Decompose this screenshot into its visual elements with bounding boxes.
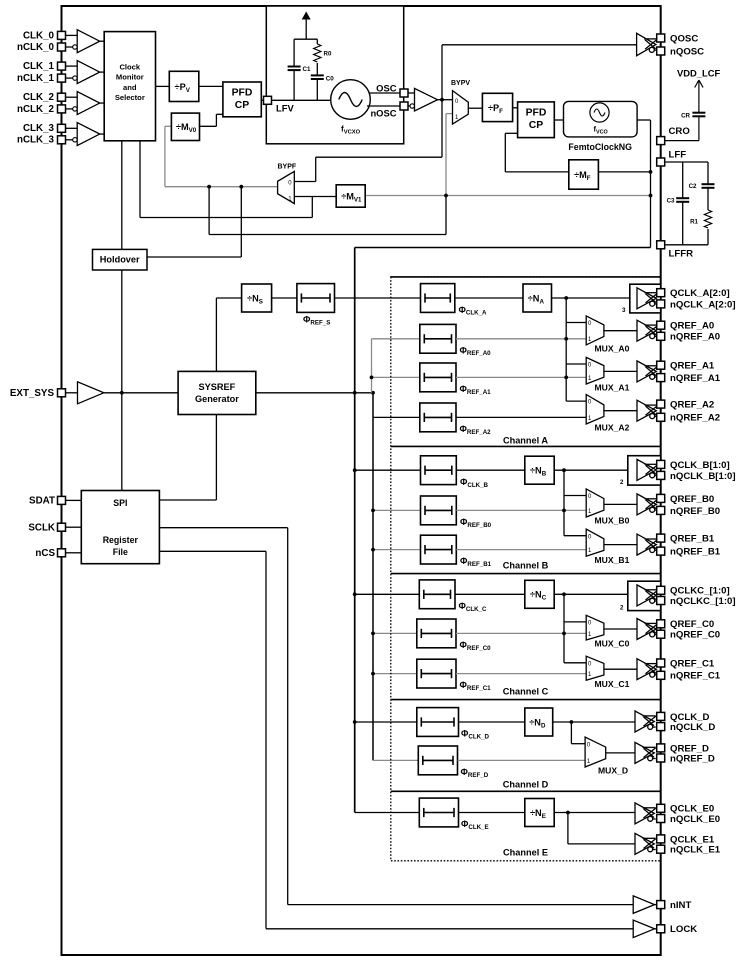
wire to REF_A2: [373, 416, 420, 418]
svg-text:Register: Register: [103, 535, 139, 545]
pin nQREF_C0: [657, 630, 665, 638]
wire OSC: [369, 92, 401, 94]
svg-text:MUX_A2: MUX_A2: [595, 423, 630, 433]
pin nCLK_0: [58, 43, 66, 51]
svg-text:CP: CP: [235, 100, 250, 111]
svg-text:nQCLK_D: nQCLK_D: [670, 722, 715, 733]
divider PV: [169, 71, 199, 101]
wire receiver 3 out: [100, 133, 105, 135]
wire CLK_D to ND: [459, 721, 525, 723]
junction holdover tap: [239, 185, 243, 189]
wire NC to QCLKC driver: [554, 593, 628, 595]
crossing mark C0: [562, 632, 566, 636]
junction channel E clock: [566, 811, 570, 815]
svg-text:nQREF_B1: nQREF_B1: [670, 547, 721, 558]
delay REF_B1: [421, 535, 457, 564]
svg-text:CP: CP: [529, 120, 544, 131]
svg-text:SYSREF: SYSREF: [199, 382, 236, 392]
wire SCLK stub: [66, 526, 82, 528]
pin nQREF_A1: [657, 374, 665, 382]
svg-text:nQREF_A1: nQREF_A1: [670, 373, 721, 384]
wire VCO to CLK_B: [355, 469, 421, 471]
wire mux A2 out: [604, 410, 637, 412]
junction channel B clock: [562, 468, 566, 472]
wire SPI LOCK out: [159, 550, 266, 552]
junction channel A clock: [564, 296, 568, 300]
wire to REF_C0: [373, 632, 417, 634]
wire riser to crossover: [445, 196, 447, 235]
svg-text:nQREF_A0: nQREF_A0: [670, 332, 720, 343]
svg-text:nOSC: nOSC: [370, 108, 396, 119]
driver QCLK_A: [637, 288, 658, 309]
divider MV1: [336, 185, 365, 207]
crossing mark A1: [564, 376, 568, 380]
junction REF_C0 tap: [371, 632, 375, 636]
svg-text:MUX_D: MUX_D: [598, 766, 628, 776]
block FemtoClockNG: [564, 101, 638, 136]
wire SPI to SYSREF: [159, 499, 216, 501]
svg-text:nQCLK_A[2:0]: nQCLK_A[2:0]: [670, 299, 736, 310]
svg-text:2: 2: [620, 605, 624, 612]
delay CLK_B: [421, 456, 457, 485]
pin nQREF_B1: [657, 547, 665, 555]
channels top edge: [391, 276, 661, 278]
wire FemtoClock out: [637, 119, 650, 121]
wire BYPF out riser: [164, 126, 166, 186]
wire CLK_1 stub: [66, 65, 78, 67]
pin LFV: [264, 96, 272, 104]
delay REF_A1: [420, 363, 456, 392]
wire OSC pin to receiver: [408, 92, 415, 94]
VCXO external network box: [266, 6, 403, 144]
divider NS: [242, 284, 272, 312]
junction channel B: [353, 468, 357, 472]
svg-text:C0: C0: [326, 76, 334, 83]
wire receiver 1 out: [100, 71, 105, 73]
divider Channel B/C: [391, 573, 661, 575]
junction channel C: [353, 592, 357, 596]
driver box QCLK_B: [628, 456, 661, 485]
svg-text:nQREF_D: nQREF_D: [670, 753, 715, 764]
driver QOSC: [637, 33, 658, 55]
capacitor C1: [288, 67, 301, 71]
pin QREF_D: [657, 744, 665, 752]
mux BYPF: [278, 171, 295, 203]
svg-text:nINT: nINT: [670, 900, 691, 911]
divider NC: [525, 580, 554, 608]
svg-text:nCS: nCS: [35, 548, 55, 559]
delay CLK_A: [421, 284, 455, 313]
driver QCLK_D: [635, 711, 656, 732]
svg-text:MUX_B0: MUX_B0: [595, 516, 630, 526]
svg-text:nCLK_0: nCLK_0: [17, 42, 55, 53]
wire LFF: [666, 161, 709, 163]
wire riser BYPF in0: [315, 157, 317, 181]
svg-text:R1: R1: [690, 219, 698, 226]
mux MUX_C0: [586, 615, 604, 640]
divider ND: [525, 708, 553, 736]
svg-text:Generator: Generator: [195, 394, 239, 404]
wire VCO to CLK_C: [355, 593, 420, 595]
svg-text:3: 3: [622, 307, 626, 314]
wire feedback into PFD2: [505, 132, 517, 134]
pin CRO: [657, 137, 665, 145]
capacitor CR: [692, 113, 705, 117]
svg-text:File: File: [113, 547, 128, 557]
wire VCO down: [650, 120, 652, 248]
wire CM to Holdover: [121, 141, 123, 250]
resistor R1: [704, 210, 711, 228]
wire channel A mux feed vertical: [565, 298, 567, 401]
pin nQCLK_A[2:0]: [657, 300, 665, 308]
svg-text:Monitor: Monitor: [116, 73, 144, 82]
pin nQREF_D: [657, 754, 665, 762]
wire channel D mux feed vertical: [570, 722, 572, 744]
wire REF_C1 to mux: [456, 673, 586, 675]
pin nINT: [657, 901, 665, 909]
wire REF_A2 to mux: [456, 416, 586, 418]
junction MV1 tap: [649, 194, 653, 198]
junction SYSREF VCO crossing: [353, 391, 357, 395]
wire CLK_2 stub: [66, 96, 78, 98]
pin nQCLK_B[1:0]: [657, 471, 665, 479]
delay REF_S: [297, 284, 335, 313]
svg-text:LFFR: LFFR: [669, 249, 694, 260]
pin SCLK: [58, 523, 66, 531]
wire to REF_B1: [373, 549, 421, 551]
junction SYSREF dist: [371, 391, 375, 395]
pin CLK_3: [58, 124, 66, 132]
chip boundary: [62, 6, 661, 955]
wire BYPV in1 riser: [445, 114, 447, 196]
driver QCLK_E1: [635, 833, 656, 854]
svg-text:Channel E: Channel E: [503, 847, 548, 857]
wire EXT_SYS to SYSREF: [104, 392, 178, 394]
pin CLK_0: [58, 31, 66, 39]
driver box QCLKC: [628, 581, 661, 610]
junction REF_C1 tap: [371, 672, 375, 676]
wire nINT vertical: [287, 528, 289, 905]
driver QREF_B0: [637, 494, 658, 515]
svg-text:nQOSC: nQOSC: [670, 46, 704, 57]
pin QREF_A2: [657, 400, 665, 408]
block PFD CP 1: [223, 82, 261, 117]
pin QCLK_E0: [657, 804, 665, 812]
pin LFF: [657, 158, 665, 166]
wire REF_B0 to mux: [456, 509, 586, 511]
wire CLK_E to NE: [459, 812, 525, 814]
svg-text:Selector: Selector: [115, 93, 145, 102]
wire receiver out to BYPV in0: [438, 99, 453, 101]
svg-text:OSC: OSC: [376, 83, 397, 94]
wire mux B0 in0: [564, 495, 586, 497]
wire riser crossover left: [208, 187, 210, 235]
channels outer dashed box: [391, 277, 661, 861]
mux BYPV: [453, 91, 469, 125]
svg-text:nQREF_C0: nQREF_C0: [670, 630, 720, 641]
wire LFFR: [666, 244, 709, 246]
svg-text:SDAT: SDAT: [29, 496, 55, 507]
svg-text:MUX_B1: MUX_B1: [595, 555, 630, 565]
wire nCLK_1 stub: [66, 77, 73, 79]
pin CLK_1: [58, 62, 66, 70]
divider Channel D/E: [391, 790, 661, 792]
wire CLK_C to NC: [455, 593, 525, 595]
driver QREF_C0: [637, 619, 658, 640]
svg-text:CRO: CRO: [669, 126, 691, 137]
wire CLK_B to NB: [456, 469, 525, 471]
svg-text:QREF_C0: QREF_C0: [670, 619, 714, 630]
svg-text:SCLK: SCLK: [28, 522, 55, 533]
svg-text:VDD_LCF: VDD_LCF: [677, 68, 721, 79]
svg-text:Channel B: Channel B: [503, 561, 549, 571]
divider MF: [569, 160, 599, 189]
buffer LOCK: [633, 920, 654, 938]
wire VCO to CLK_E: [355, 812, 420, 814]
svg-text:C2: C2: [689, 183, 697, 190]
svg-text:nQCLK_B[1:0]: nQCLK_B[1:0]: [670, 471, 736, 482]
wire into MV0: [165, 125, 172, 127]
junction channel D: [353, 720, 357, 724]
wire MV0 riser: [215, 114, 217, 126]
wire Holdover riser: [240, 187, 242, 257]
pin CLK_2: [58, 93, 66, 101]
svg-text:nCLK_1: nCLK_1: [17, 73, 55, 84]
power arrow VDD_LCF: [695, 80, 703, 141]
driver QREF_A1: [637, 361, 658, 382]
svg-text:nQCLKC_[1:0]: nQCLKC_[1:0]: [670, 596, 736, 607]
svg-text:Clock: Clock: [119, 62, 140, 71]
svg-text:QCLK_A[2:0]: QCLK_A[2:0]: [670, 288, 730, 299]
wire nCS stub: [66, 552, 82, 554]
wire mux C0 out: [604, 628, 637, 630]
delay CLK_E: [419, 798, 458, 827]
svg-text:nCLK_2: nCLK_2: [17, 104, 55, 115]
driver QREF_D: [635, 742, 656, 763]
block PFD CP 2: [518, 102, 555, 138]
svg-text:nQREF_C1: nQREF_C1: [670, 671, 721, 682]
junction OSC node: [440, 98, 444, 102]
wire LOCK horizontal: [266, 928, 633, 930]
wire channel B mux feed vertical: [563, 470, 565, 536]
wire feedback to MF: [505, 171, 569, 173]
wire R0 C0 branch: [316, 39, 318, 100]
svg-text:Channel C: Channel C: [503, 687, 549, 697]
svg-text:Channel A: Channel A: [503, 436, 548, 446]
wire to REF_B0: [373, 509, 421, 511]
svg-text:PFD: PFD: [232, 88, 253, 99]
wire C1 branch: [293, 39, 295, 100]
wire MV0 out: [200, 125, 217, 127]
driver QCLK_B: [637, 459, 658, 480]
wire LFV to VCXO: [272, 99, 331, 101]
mux MUX_A2: [586, 395, 604, 425]
wire RC top: [294, 38, 317, 40]
wire CM to BYPF area: [140, 217, 312, 219]
pin nCLK_2: [58, 105, 66, 113]
svg-text:QREF_B1: QREF_B1: [670, 534, 715, 545]
svg-text:QREF_A0: QREF_A0: [670, 321, 714, 332]
wire OSC clock vertical: [441, 45, 443, 157]
svg-text:QREF_C1: QREF_C1: [670, 658, 715, 669]
wire PF to PFD2: [513, 107, 518, 109]
svg-text:EXT_SYS: EXT_SYS: [10, 388, 55, 399]
wire mux C1 in0: [564, 662, 586, 664]
delay CLK_C: [419, 580, 455, 609]
wire BYPF in1 to MV1: [294, 196, 336, 198]
block SPI Register File: [81, 491, 159, 564]
divider PF: [482, 93, 512, 121]
wire Holdover out: [147, 256, 241, 258]
delay REF_A2: [420, 403, 456, 432]
wire mux C1 out: [604, 668, 637, 670]
wire PV to PFD1: [199, 85, 223, 87]
junction REF_A1 tap: [370, 376, 374, 380]
junction MF tap: [649, 170, 653, 174]
pin nQREF_A0: [657, 332, 665, 340]
wire SYSREF bottom riser: [215, 415, 217, 501]
svg-text:nQCLK_E0: nQCLK_E0: [670, 814, 720, 825]
wire channel E vertical: [567, 813, 569, 844]
pin QREF_A0: [657, 321, 665, 329]
wire mux A0 in0: [566, 322, 586, 324]
pin nQCLK_D: [657, 723, 665, 731]
wire CLK_0 stub: [66, 34, 78, 36]
crossing mark A0: [564, 337, 568, 341]
wire CM down: [139, 141, 141, 218]
wire VCO to CLK_D: [355, 721, 417, 723]
delay REF_C0: [417, 619, 456, 648]
wire VCO return: [355, 247, 651, 249]
wire ND to QCLK_D driver: [553, 721, 635, 723]
wire Holdover to SPI: [121, 270, 123, 491]
pin QREF_C1: [657, 659, 665, 667]
wire power stem: [305, 17, 307, 40]
svg-text:FemtoClockNG: FemtoClockNG: [568, 142, 632, 152]
wire mux B1 out: [604, 544, 637, 546]
svg-text:CR: CR: [681, 113, 690, 120]
svg-text:MUX_A1: MUX_A1: [595, 383, 630, 393]
divider Channel C/D: [391, 699, 661, 701]
mux MUX_A1: [586, 357, 604, 384]
wire C2 R1 branch: [707, 162, 709, 245]
wire BYPF output: [165, 186, 278, 188]
wire receiver 0 out: [100, 40, 105, 42]
driver QREF_A0: [637, 320, 658, 341]
svg-text:QREF_A1: QREF_A1: [670, 361, 715, 372]
svg-text:SPI: SPI: [113, 498, 127, 508]
delay REF_C1: [417, 659, 456, 688]
wire CLK_A to NA: [455, 297, 523, 299]
wire NE to QCLK_E0 driver: [554, 812, 635, 814]
pin LFFR: [657, 241, 665, 249]
delay CLK_D: [417, 708, 459, 737]
pin OSC: [400, 89, 408, 97]
wire REF_A0 to mux: [456, 338, 586, 340]
wire mux D out: [606, 752, 635, 754]
buffer EXT_SYS: [78, 382, 104, 404]
capacitor C0: [311, 75, 324, 79]
svg-text:nCLK_3: nCLK_3: [17, 135, 55, 146]
junction EXT_SYS holdover line: [120, 391, 124, 395]
svg-text:MUX_C0: MUX_C0: [595, 639, 630, 649]
svg-text:C3: C3: [667, 198, 675, 205]
driver QCLKC: [637, 585, 658, 606]
wire nINT horizontal: [288, 904, 634, 906]
junction REF_B1 tap: [371, 548, 375, 552]
svg-text:QOSC: QOSC: [670, 33, 698, 44]
receiver CLK_3: [77, 123, 100, 146]
pin nCLK_3: [58, 136, 66, 144]
wire REF_B1 to mux: [456, 549, 586, 551]
wire feedback riser: [504, 133, 506, 172]
wire nOSC pin to receiver: [408, 105, 411, 107]
wire receiver 2 out: [100, 102, 105, 104]
wire to REF_C1: [373, 673, 417, 675]
wire REF_D to mux: [458, 759, 586, 761]
wire REF_C0 to mux: [456, 632, 586, 634]
resistor R0: [314, 44, 321, 62]
wire NA to QCLK_A driver: [552, 297, 630, 299]
oscillator fVCXO: [331, 80, 371, 120]
wire mux A1 out: [604, 370, 637, 372]
wire into Ns: [216, 297, 241, 299]
svg-text:nQREF_A2: nQREF_A2: [670, 413, 720, 424]
pin LOCK: [657, 925, 665, 933]
driver QREF_A2: [637, 400, 658, 421]
wire to QCLK_E1 driver: [568, 843, 635, 845]
wire SDAT stub: [66, 499, 82, 501]
wire VCO distribution vertical: [354, 248, 356, 813]
driver box QCLK_A: [630, 284, 661, 313]
wire nCLK_0 stub: [66, 46, 73, 48]
wire into BYPF in0: [294, 181, 315, 183]
svg-text:nQREF_B0: nQREF_B0: [670, 506, 720, 517]
junction BYPV tap: [444, 194, 448, 198]
wire mux B1 in0: [564, 535, 586, 537]
pin nCLK_1: [58, 74, 66, 82]
pin nOSC: [400, 102, 408, 110]
svg-text:CLK_1: CLK_1: [23, 61, 55, 72]
svg-text:BYPV: BYPV: [451, 80, 470, 87]
wire riser to MV1 input: [311, 197, 313, 218]
pin QCLK_B[1:0]: [657, 460, 665, 468]
pin nQREF_C1: [657, 671, 665, 679]
wire mux A0 out: [604, 330, 637, 332]
wire Ns to delay: [272, 297, 297, 299]
pin nQCLK_E1: [657, 845, 665, 853]
delay REF_D: [418, 746, 457, 775]
pin nQOSC: [657, 47, 665, 55]
wire to REF_A0: [372, 338, 420, 340]
wire nCLK_3 stub: [66, 139, 73, 141]
svg-text:MUX_C1: MUX_C1: [595, 679, 630, 689]
divider Channel A/B: [391, 445, 661, 447]
wire mux A2 in0: [566, 400, 586, 402]
wire REF_A1 to mux: [456, 376, 586, 378]
pin nQREF_B0: [657, 506, 665, 514]
svg-text:LFF: LFF: [669, 150, 687, 161]
wire LOCK vertical: [265, 551, 267, 929]
mux MUX_D: [585, 737, 606, 767]
capacitor C3: [676, 198, 689, 202]
wire SPI nINT out: [159, 527, 287, 529]
wire NB to QCLK_B driver: [554, 469, 628, 471]
svg-text:MUX_A0: MUX_A0: [595, 344, 630, 354]
mux MUX_A0: [586, 316, 604, 345]
pin QREF_C0: [657, 620, 665, 628]
divider NB: [525, 456, 554, 484]
